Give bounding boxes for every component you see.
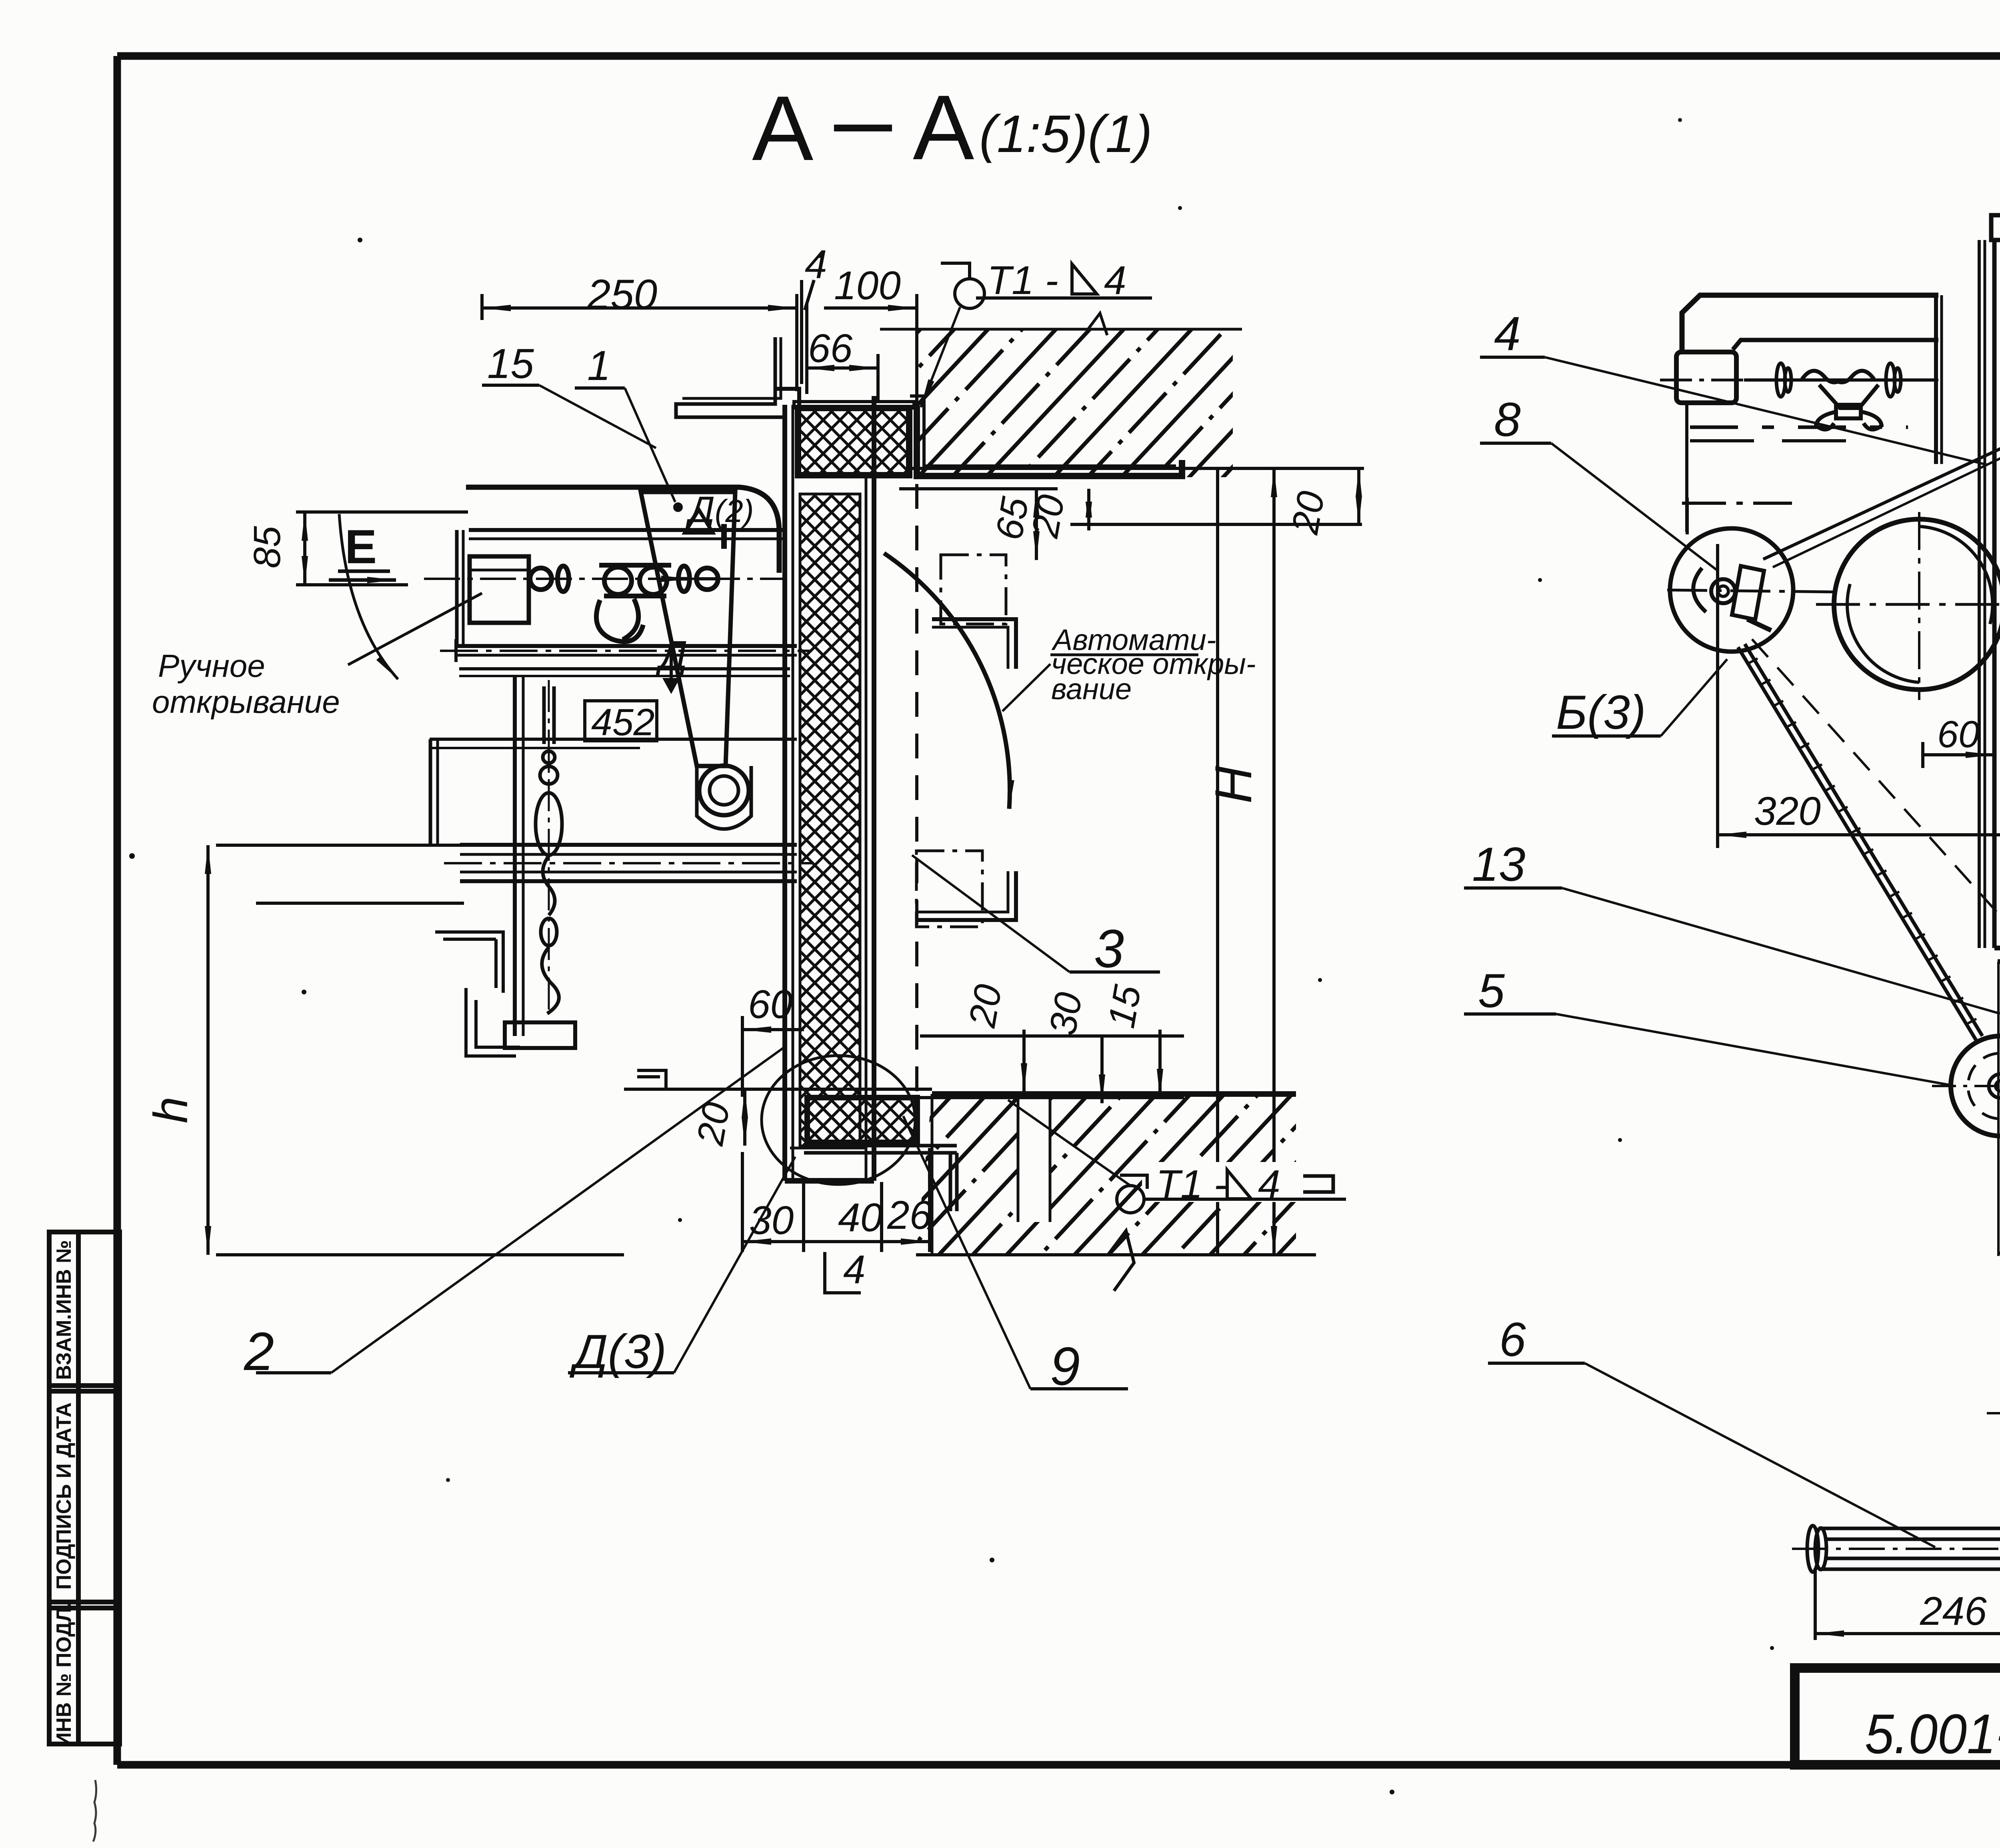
- dim h: [216, 844, 460, 847]
- svg-text:20: 20: [961, 981, 1010, 1031]
- svg-text:Д(2): Д(2): [685, 489, 754, 530]
- ruchnoe leader: [348, 593, 482, 665]
- lower rail ext left: [256, 902, 464, 905]
- door leaf: [1991, 215, 2000, 1040]
- upper catch bracket: [941, 555, 1006, 624]
- label 2: [256, 1371, 331, 1374]
- lower small brackets: [435, 932, 503, 993]
- label 6: [1488, 1362, 1585, 1365]
- chain / turnbuckle: [548, 680, 550, 1012]
- svg-text:открывание: открывание: [152, 684, 340, 720]
- svg-text:1: 1: [587, 342, 610, 389]
- top frame Z-profile: [676, 337, 784, 417]
- big detail circle D: [762, 1056, 915, 1184]
- svg-text:60: 60: [1937, 713, 1980, 756]
- D2 marker triangle: [685, 510, 713, 533]
- winch: [1792, 1294, 2000, 1629]
- handle pipe: [1819, 1528, 2000, 1569]
- svg-text:Б(3): Б(3): [1556, 686, 1646, 739]
- bottom left flashing: [637, 1070, 666, 1089]
- lower pulley: [1951, 1036, 2000, 1136]
- svg-text:А: А: [913, 76, 974, 179]
- svg-text:(1:5)(1): (1:5)(1): [979, 104, 1152, 163]
- label D3: [568, 1371, 674, 1374]
- mid member: [459, 667, 790, 670]
- floor line left of door: [624, 1088, 932, 1091]
- hidden reveal dashed line: [915, 484, 918, 1094]
- svg-text:ИНВ № ПОДЛ.: ИНВ № ПОДЛ.: [52, 1602, 76, 1747]
- rope from trolley to pulley: [1763, 445, 2000, 559]
- svg-text:26: 26: [887, 1193, 932, 1238]
- door second face pair: [1978, 240, 1981, 948]
- svg-text:Т1 -: Т1 -: [987, 258, 1058, 303]
- bottom angle under seal: [804, 1146, 957, 1211]
- upper rail: [456, 644, 797, 648]
- label 4: [1480, 356, 1545, 359]
- door bottom seal: [807, 1098, 917, 1142]
- dim 4 top: [800, 280, 803, 384]
- left posts and shelf: [455, 530, 459, 646]
- svg-text:h: h: [144, 1097, 198, 1124]
- label 4 bottom: [825, 1252, 861, 1293]
- svg-text:320: 320: [1754, 789, 1821, 834]
- hinge pivot: [699, 766, 749, 815]
- svg-text:Ручное: Ручное: [158, 648, 265, 684]
- svg-text:246: 246: [1920, 1589, 1987, 1634]
- dim 66: [806, 366, 878, 370]
- svg-text:А: А: [752, 77, 813, 180]
- label B3: [1552, 734, 1661, 738]
- dim 65 / 20 right top: [908, 467, 1364, 470]
- dims 20/30/15 bottom right rot: [1022, 1030, 1026, 1092]
- svg-text:30: 30: [749, 1198, 794, 1243]
- svg-text:вание: вание: [1051, 672, 1132, 706]
- svg-text:Д: Д: [655, 633, 687, 678]
- svg-text:2: 2: [244, 1321, 274, 1382]
- dim 20 bottom-left rot: [743, 1089, 746, 1146]
- svg-text:20: 20: [1024, 492, 1073, 541]
- dim 60 right: [1923, 753, 1994, 756]
- top mechanism duct: [1682, 295, 1938, 351]
- svg-text:60: 60: [748, 982, 792, 1027]
- label 13: [1464, 886, 1562, 890]
- svg-text:Д(3): Д(3): [569, 1325, 666, 1378]
- svg-text:ПОДПИСЬ И ДАТА: ПОДПИСЬ И ДАТА: [52, 1402, 76, 1590]
- ext line 1311 + far 20 dim: [1070, 523, 1362, 526]
- door leaf: [776, 389, 874, 1181]
- lintel angle (door frame): [917, 406, 1182, 476]
- machinery: top plate: [469, 528, 783, 532]
- svg-text:4: 4: [843, 1247, 866, 1292]
- big circle: [1834, 519, 2000, 690]
- label 8: [1480, 442, 1551, 445]
- B pulley: [1670, 528, 1793, 652]
- left view dimensions & labels: [208, 263, 1364, 1389]
- svg-text:4: 4: [1104, 258, 1126, 303]
- T1 bottom flag: [1142, 1162, 1354, 1202]
- left swing arc + arrow: [339, 514, 398, 679]
- right view dims & labels: [1464, 357, 2000, 1640]
- floor hatch block: [916, 1094, 1316, 1291]
- lower catch bracket: [916, 851, 982, 927]
- dim 246: [1814, 1568, 1817, 1640]
- svg-text:15: 15: [487, 340, 534, 387]
- dim H: [1216, 468, 1219, 1255]
- svg-text:85: 85: [246, 526, 288, 568]
- svg-text:5.001-2.1-00.00.000СБ: 5.001-2.1-00.00.000СБ: [1865, 1702, 2000, 1765]
- rope descending: [1738, 639, 2000, 1040]
- svg-text:Н: Н: [1204, 766, 1262, 804]
- lintel hatch block top right: [917, 329, 1233, 477]
- dim 250: [480, 294, 484, 320]
- left sidebar: [49, 1232, 120, 1744]
- dim 320: [1716, 544, 1719, 848]
- svg-text:4: 4: [805, 242, 827, 287]
- svg-text:ВЗАМ.ИНВ №: ВЗАМ.ИНВ №: [52, 1240, 76, 1380]
- label 9: [1030, 1387, 1128, 1390]
- avtomat leader: [1002, 664, 1050, 711]
- D marker triangle: [662, 678, 680, 694]
- svg-text:40: 40: [838, 1195, 882, 1240]
- dim 60 bottom: [741, 1016, 744, 1097]
- svg-text:20: 20: [689, 1099, 738, 1149]
- svg-text:66: 66: [808, 326, 853, 371]
- svg-text:100: 100: [834, 263, 901, 308]
- lower rail double: [460, 843, 797, 847]
- svg-text:9: 9: [1050, 1336, 1080, 1396]
- svg-text:15: 15: [1100, 982, 1149, 1031]
- dim 100: [1998, 1252, 2000, 1255]
- hinge arm triangle: [641, 492, 735, 766]
- top seal (rubber): [794, 402, 914, 475]
- svg-text:30: 30: [1041, 989, 1090, 1038]
- dims 30 40 26: [741, 1152, 744, 1252]
- dim 100: [915, 294, 918, 329]
- E arrow: [338, 570, 390, 573]
- labels 15 / 1: [482, 384, 539, 387]
- svg-text:3: 3: [1094, 918, 1124, 979]
- machinery: left pulley box: [470, 556, 529, 623]
- dim 85: [296, 510, 468, 514]
- svg-text:20: 20: [1284, 488, 1333, 538]
- label 5: [1464, 1012, 1556, 1016]
- svg-text:Е: Е: [345, 520, 377, 574]
- svg-text:250: 250: [587, 271, 657, 318]
- swing arc right: [884, 553, 1010, 809]
- bracket column: [513, 676, 517, 1036]
- svg-text:452: 452: [591, 701, 655, 744]
- svg-text:8: 8: [1494, 393, 1521, 446]
- bracket plate: [1934, 295, 1938, 464]
- svg-text:Т1 -: Т1 -: [1156, 1162, 1227, 1207]
- svg-text:5: 5: [1478, 964, 1505, 1018]
- svg-text:4: 4: [1494, 307, 1521, 360]
- machinery top plate with rounded corner: [466, 487, 779, 573]
- svg-text:4: 4: [1258, 1162, 1280, 1207]
- T1 flag top: [941, 263, 970, 280]
- svg-text:13: 13: [1472, 838, 1525, 891]
- axis with trolley hardware: [424, 578, 783, 580]
- trolley hardware: [1744, 363, 1936, 430]
- label 3: [1070, 970, 1160, 974]
- title block: [1795, 1668, 2000, 1765]
- svg-text:6: 6: [1499, 1313, 1526, 1366]
